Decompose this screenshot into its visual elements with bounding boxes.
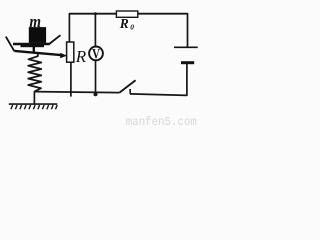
ground xyxy=(9,104,58,109)
pan right wing xyxy=(49,35,60,44)
wire voltmeter top xyxy=(94,14,96,47)
svg-text:R: R xyxy=(119,16,129,31)
battery (cell) xyxy=(174,47,198,64)
wire bottom right xyxy=(130,94,187,96)
pan stem xyxy=(33,44,35,53)
mass block xyxy=(29,27,46,43)
svg-text:R: R xyxy=(75,47,87,66)
node bottom junction xyxy=(94,92,98,96)
wire bottom left xyxy=(35,92,120,93)
pan left wing xyxy=(6,37,15,52)
rheostat R (box) xyxy=(67,42,74,62)
svg-text:0: 0 xyxy=(130,22,134,31)
wire left vertical branch xyxy=(68,13,70,42)
ground stem xyxy=(33,91,35,104)
wire voltmeter bottom xyxy=(95,60,97,93)
label R0 xyxy=(119,16,135,32)
wire right vertical upper xyxy=(187,13,189,47)
pan base xyxy=(13,44,50,47)
voltmeter U (circle V) xyxy=(89,46,103,62)
wire rheostat bottom xyxy=(70,62,72,96)
resistor R0 (box) xyxy=(116,11,137,17)
wire right vertical lower xyxy=(186,64,188,96)
svg-text:manfen5.com: manfen5.com xyxy=(126,115,197,128)
wire top horizontal xyxy=(69,13,187,15)
spring xyxy=(28,54,41,92)
node top junction xyxy=(94,12,97,15)
svg-text:V: V xyxy=(92,46,100,62)
slider arrow to rheostat xyxy=(14,51,67,58)
switch S (open) xyxy=(119,80,135,94)
